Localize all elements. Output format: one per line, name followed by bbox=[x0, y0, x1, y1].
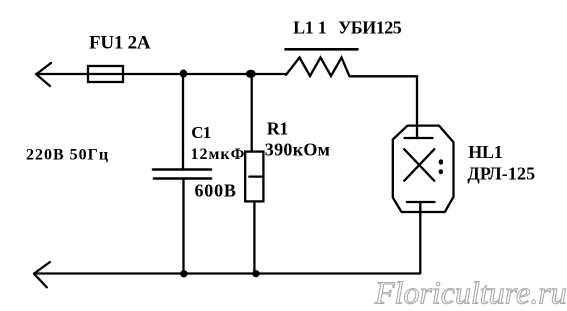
wire: node A down to capacitor C1 bbox=[182, 74, 184, 170]
node A junction dot bbox=[180, 70, 187, 78]
wire: resistor R1 to bottom rail bbox=[253, 201, 255, 272]
lamp HL1 top electrode bar bbox=[405, 137, 433, 139]
svg-text:HL1: HL1 bbox=[468, 142, 503, 162]
bottom-left arrow (mains input, bottom) bbox=[34, 262, 50, 287]
lamp HL1 X mark stroke 2 bbox=[404, 149, 434, 181]
top-left arrow (mains input, top) bbox=[37, 63, 52, 86]
svg-text:220В 50Гц: 220В 50Гц bbox=[26, 147, 109, 164]
junction dot bottom rail / capacitor bbox=[180, 270, 187, 277]
capacitor C1 bottom plate bbox=[154, 177, 211, 180]
wire: top rail from arrow to inductor bbox=[36, 73, 286, 75]
inductor L1 (zigzag winding) bbox=[286, 58, 350, 77]
svg-text:FU1 2A: FU1 2A bbox=[89, 33, 151, 54]
wire: capacitor C1 to bottom rail bbox=[182, 179, 184, 273]
lamp HL1 bottom electrode bar bbox=[407, 201, 435, 203]
svg-text:12мкФ: 12мкФ bbox=[191, 146, 246, 163]
lamp HL1 X mark stroke 1 bbox=[404, 149, 434, 181]
fuse FU1 bbox=[88, 66, 123, 82]
inductor L1 core bar bbox=[286, 48, 358, 51]
wire: bottom rail bbox=[34, 272, 420, 274]
wire: lamp bottom lead to bottom rail bbox=[419, 202, 421, 273]
junction dot bottom rail / resistor bbox=[252, 270, 259, 277]
svg-text:600В: 600В bbox=[195, 181, 237, 201]
lamp HL1 bulb outline bbox=[393, 126, 454, 212]
node B junction dot bbox=[246, 70, 256, 78]
lamp HL1 colon dot upper bbox=[439, 159, 444, 164]
svg-text:УБИ125: УБИ125 bbox=[338, 17, 402, 37]
svg-text:ДРЛ-125: ДРЛ-125 bbox=[467, 164, 535, 184]
resistor R1 body bbox=[245, 152, 263, 202]
watermark Floriculture.ru bbox=[374, 275, 567, 311]
svg-text:L1 1: L1 1 bbox=[293, 17, 327, 37]
svg-text:Floriculture.ru: Floriculture.ru bbox=[374, 275, 567, 311]
svg-text:R1: R1 bbox=[267, 118, 289, 138]
wire: inductor to lamp branch (horizontal then down) bbox=[350, 76, 418, 138]
lamp HL1 colon dot lower bbox=[439, 169, 443, 174]
wire: node B down to resistor R1 bbox=[251, 74, 253, 152]
svg-text:390кОм: 390кОм bbox=[265, 140, 330, 160]
resistor R1 inner dash bbox=[249, 175, 261, 177]
capacitor C1 top plate bbox=[153, 168, 211, 171]
svg-text:C1: C1 bbox=[191, 123, 211, 142]
